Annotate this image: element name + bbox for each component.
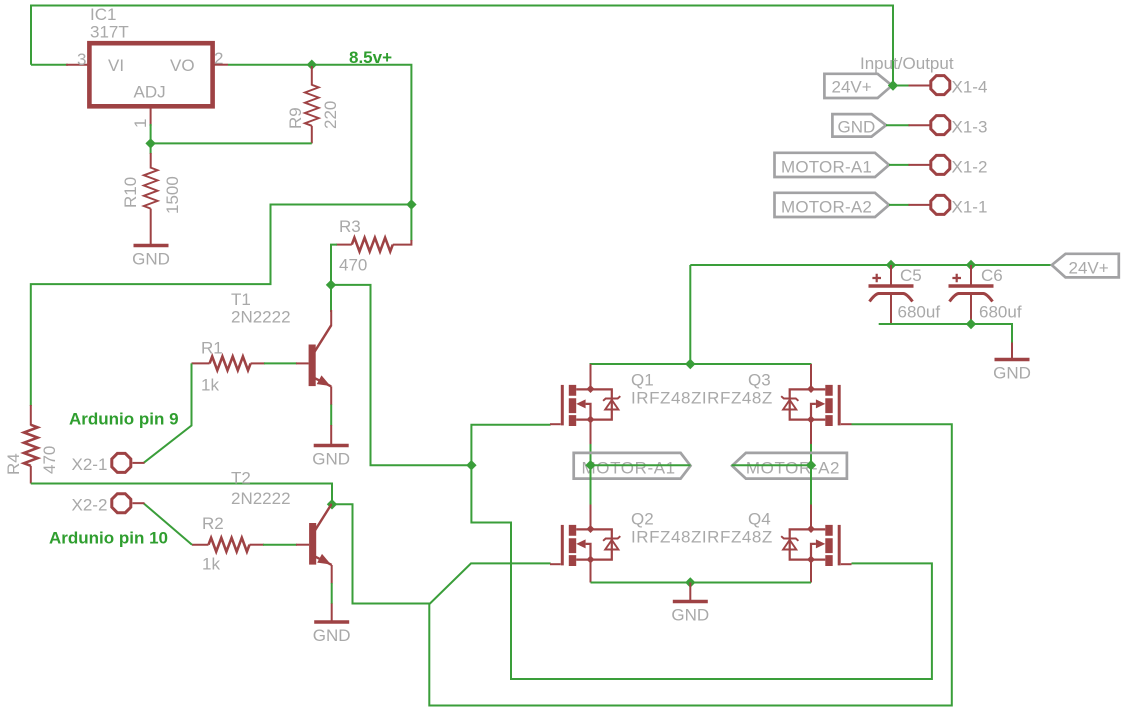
X1-3 pin lead: [909, 124, 931, 126]
svg-text:X1-4: X1-4: [952, 78, 988, 97]
svg-text:IC1: IC1: [90, 5, 116, 24]
X1-4 pin lead: [909, 85, 931, 87]
wire X2-2 to R2: [144, 503, 193, 545]
flag MOTOR-A1 (X1-2): [775, 153, 890, 177]
wire: [889, 164, 910, 166]
svg-text:2N2222: 2N2222: [231, 489, 291, 508]
svg-text:1500: 1500: [163, 176, 182, 214]
wire rail to ground: [689, 583, 691, 601]
X2-2 pin lead: [133, 502, 145, 504]
svg-text:R1: R1: [201, 339, 223, 358]
Q4 drain pin: [810, 505, 812, 530]
voltage regulator IC1 317T: [77, 5, 223, 128]
wire IC1 input: [31, 64, 68, 66]
svg-text:680uf: 680uf: [979, 303, 1022, 322]
wire emitter to ground: [331, 604, 333, 623]
svg-text:T2: T2: [231, 469, 251, 488]
wire: [150, 124, 152, 154]
wire R1 to T1 base: [264, 362, 297, 364]
wire T2 net to Q3 gate: [429, 424, 952, 705]
svg-text:VO: VO: [170, 56, 195, 75]
junction: [307, 59, 317, 69]
transistor T1 2N2222: [231, 290, 331, 386]
Q4 source wire: [810, 559, 812, 583]
svg-text:X1-2: X1-2: [952, 158, 988, 177]
flag MOTOR-A1: [574, 453, 691, 479]
wire to Q4 gate: [471, 465, 932, 679]
wire 8.5v+ down to R3: [410, 205, 412, 242]
junction T2 collector node: [327, 499, 337, 509]
ground: [132, 246, 170, 269]
transistor T2 2N2222: [231, 469, 332, 565]
svg-text:R2: R2: [202, 514, 224, 533]
flag 24V+ right: [1052, 254, 1119, 278]
svg-text:R3: R3: [339, 217, 361, 236]
svg-text:VI: VI: [108, 56, 124, 75]
IC1 pin 3 lead: [66, 64, 89, 66]
resistor R2 1k: [192, 514, 264, 574]
svg-text:Q2: Q2: [631, 510, 654, 529]
wire: [330, 405, 332, 426]
flag 24V+ (X1-4): [824, 74, 892, 98]
transistor Q4 IRFZ48Z: [748, 510, 852, 567]
flag GND (X1-3): [832, 114, 886, 137]
svg-text:MOTOR-A1: MOTOR-A1: [781, 158, 872, 177]
transistor Q2 IRFZ48Z: [550, 510, 654, 567]
svg-text:ADJ: ADJ: [134, 83, 166, 102]
wire T1 emitter: [330, 386, 332, 405]
svg-text:X2-2: X2-2: [72, 496, 108, 515]
wire: [331, 583, 333, 604]
svg-text:470: 470: [339, 256, 367, 275]
svg-text:Q3: Q3: [748, 371, 771, 390]
wire MOTOR-A2 to Q4 drain: [810, 465, 812, 505]
svg-text:R10: R10: [121, 177, 140, 208]
svg-text:680uf: 680uf: [898, 303, 941, 322]
resistor R1 1k: [192, 339, 266, 395]
wire 8.5v+ rail: [228, 65, 411, 205]
transistor Q1 IRFZ48Z: [550, 371, 654, 427]
IC1 pin 2 lead: [213, 64, 228, 66]
svg-text:T1: T1: [231, 290, 251, 309]
junction: [886, 260, 896, 270]
svg-text:IRFZ48ZIRFZ48Z: IRFZ48ZIRFZ48Z: [631, 528, 773, 547]
resistor R4 470: [4, 405, 59, 484]
junction: [966, 260, 976, 270]
wire: [889, 204, 910, 206]
svg-text:X1-3: X1-3: [952, 118, 988, 137]
svg-text:Q1: Q1: [631, 371, 654, 390]
wire R3 left to T1 collector: [331, 245, 337, 312]
junction MOTOR-A2 node: [806, 460, 816, 470]
svg-text:3: 3: [77, 50, 86, 69]
svg-text:Input/Output: Input/Output: [860, 54, 954, 73]
wire bridge bottom rail: [591, 582, 812, 584]
wire T2 emitter: [331, 565, 333, 584]
wire Q3 source to MOTOR-A2: [810, 420, 812, 445]
svg-text:MOTOR-A2: MOTOR-A2: [781, 198, 872, 217]
X1-2 pin lead: [909, 164, 931, 166]
ground: [313, 622, 351, 645]
IC1 ADJ pin lead: [150, 106, 152, 126]
wire MOTOR-A1 stub: [591, 464, 691, 466]
connector pin X1-4: [931, 76, 988, 97]
flag MOTOR-A2: [732, 453, 847, 479]
ground: [993, 360, 1031, 383]
junction: [888, 80, 898, 90]
connector pin X2-2: [72, 494, 131, 515]
svg-text:R9: R9: [286, 107, 305, 129]
transistor Q3 IRFZ48Z: [748, 371, 852, 427]
wire emitter to ground: [330, 425, 332, 445]
wire: [590, 444, 592, 465]
Q2 source wire: [590, 559, 592, 583]
ground: [312, 446, 350, 469]
svg-text:1k: 1k: [201, 376, 219, 395]
capacitor C5 680uf: [869, 265, 941, 324]
ground: [671, 602, 709, 625]
svg-text:317T: 317T: [90, 23, 129, 42]
svg-text:X2-1: X2-1: [72, 455, 108, 474]
resistor R3 470: [336, 217, 411, 275]
junction: [966, 319, 976, 329]
resistor R9 220: [286, 66, 340, 143]
T1 base pin: [296, 362, 309, 364]
Q1 drain wire: [590, 364, 592, 386]
wire bridge top rail: [590, 363, 812, 365]
svg-text:C5: C5: [900, 266, 922, 285]
wire Q1 source to MOTOR-A1: [590, 420, 592, 445]
connector pin X1-2: [931, 155, 988, 176]
connector pin X2-1: [72, 453, 131, 474]
svg-text:MOTOR-A1: MOTOR-A1: [582, 459, 676, 478]
Q3 drain wire: [810, 364, 812, 386]
svg-text:Ardunio pin 10: Ardunio pin 10: [49, 529, 168, 548]
wire to Q1 gate: [471, 425, 550, 466]
svg-text:Ardunio pin 9: Ardunio pin 9: [69, 410, 179, 429]
wire R4 to T2 collector node: [31, 484, 332, 505]
wire cap bottoms: [879, 324, 1012, 344]
wire: [892, 85, 910, 87]
wire: [886, 124, 910, 126]
svg-text:24V+: 24V+: [832, 78, 872, 97]
flag MOTOR-A2 (X1-1): [775, 193, 890, 217]
T2 base pin: [296, 544, 309, 546]
wire T2 net to Q2 gate: [332, 504, 551, 603]
X1-1 pin lead: [909, 204, 931, 206]
svg-text:C6: C6: [981, 266, 1003, 285]
T1 collector pin: [330, 310, 332, 326]
X2-1 pin lead: [133, 462, 145, 464]
wire: [810, 444, 812, 465]
svg-text:8.5v+: 8.5v+: [349, 48, 392, 67]
svg-text:Q4: Q4: [748, 510, 771, 529]
Q2 drain pin: [590, 505, 592, 530]
junction: [326, 280, 336, 290]
svg-text:1k: 1k: [202, 555, 220, 574]
svg-text:R4: R4: [4, 453, 23, 475]
junction: [466, 460, 476, 470]
connector pin X1-3: [931, 116, 988, 137]
wire T1 net across: [331, 285, 471, 465]
capacitor C6 680uf: [949, 265, 1022, 324]
wire MOTOR-A2 stub: [732, 464, 812, 466]
svg-text:2N2222: 2N2222: [231, 308, 291, 327]
svg-text:IRFZ48ZIRFZ48Z: IRFZ48ZIRFZ48Z: [631, 389, 773, 408]
wire MOTOR-A1 to Q2 drain: [590, 465, 592, 505]
svg-text:24V+: 24V+: [1069, 259, 1109, 278]
wire X2-1 to R1: [144, 363, 192, 463]
junction: [685, 577, 695, 587]
svg-text:1: 1: [131, 119, 150, 128]
junction: [685, 359, 695, 369]
wire to ground: [1011, 343, 1013, 359]
wire R2 to T2 base: [263, 544, 297, 546]
wire 24V+ top loop: [31, 6, 893, 86]
junction: [145, 138, 155, 148]
connector pin X1-1: [931, 195, 988, 216]
svg-text:GND: GND: [838, 118, 876, 137]
resistor R10 1500: [121, 153, 182, 245]
wire 8.5v+ to R4: [31, 205, 412, 407]
wire ADJ node: [151, 142, 312, 144]
junction MOTOR-A1 node: [585, 460, 595, 470]
svg-text:470: 470: [40, 446, 59, 474]
svg-text:X1-1: X1-1: [952, 198, 988, 217]
wire 24V+ down to bridge: [689, 265, 691, 364]
svg-text:MOTOR-A2: MOTOR-A2: [746, 459, 840, 478]
wire 24V+ rail to caps: [690, 264, 1052, 266]
svg-text:220: 220: [321, 101, 340, 129]
junction: [406, 199, 416, 209]
